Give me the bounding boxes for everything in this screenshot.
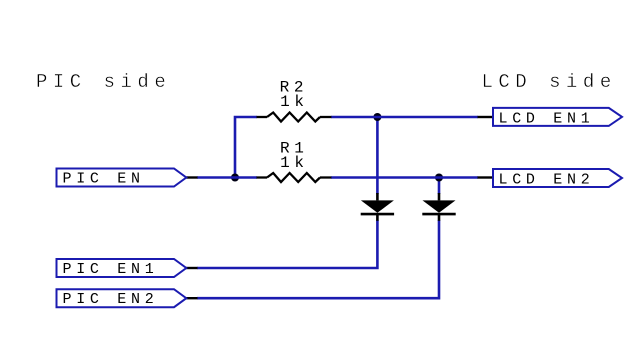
wire: diode D2 anode drop from LCD_EN2: [438, 178, 441, 195]
svg-text:LCD side: LCD side: [482, 71, 617, 93]
wire: R1 output to LCD EN2: [331, 176, 478, 179]
junction dot: node LCD_EN1 at R2 output: [373, 113, 381, 121]
wire: diode D1 anode drop from LCD_EN1: [376, 117, 379, 194]
pin lead: LCD EN1 port: [478, 116, 494, 118]
pin lead: PIC EN port: [186, 176, 198, 178]
svg-text:PIC EN2: PIC EN2: [63, 291, 159, 308]
port LCD EN1: [493, 108, 622, 127]
junction dot: node LCD_EN2 at diode D2: [435, 174, 443, 182]
svg-text:PIC EN1: PIC EN1: [63, 261, 159, 278]
resistor R2: [257, 113, 332, 122]
wire: R2 output to LCD EN1: [331, 116, 478, 119]
pin lead: PIC EN2 port: [186, 297, 198, 299]
port PIC EN1: [57, 259, 187, 278]
junction dot: node PIC_EN branch: [231, 174, 239, 182]
wire: PIC EN horizontal to R1: [197, 176, 257, 179]
resistor R1: [257, 173, 332, 182]
svg-text:PIC side: PIC side: [36, 71, 171, 93]
wire: diode D1 cathode down and left to PIC EN1: [197, 220, 377, 268]
diode D1: [361, 193, 394, 221]
svg-text:1k: 1k: [280, 93, 309, 111]
pin lead: PIC EN1 port: [186, 267, 198, 269]
port PIC EN: [57, 169, 187, 188]
svg-text:LCD EN1: LCD EN1: [499, 110, 595, 127]
wire: PIC EN vertical branch up to R2: [235, 117, 257, 178]
wire: diode D2 cathode down and left to PIC EN2: [197, 220, 439, 298]
diode D2: [422, 193, 455, 221]
port LCD EN2: [493, 169, 622, 188]
svg-text:LCD EN2: LCD EN2: [499, 171, 595, 188]
svg-text:1k: 1k: [280, 154, 309, 172]
pin lead: LCD EN2 port: [478, 176, 494, 178]
port PIC EN2: [57, 289, 187, 308]
svg-text:PIC EN: PIC EN: [63, 170, 145, 187]
